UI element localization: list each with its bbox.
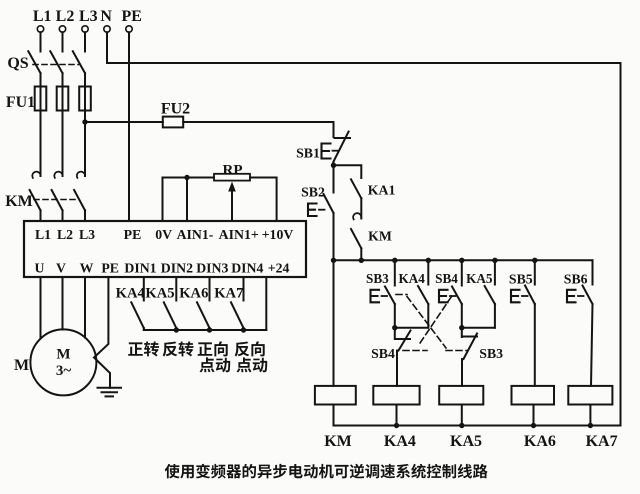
wire KA4 to junction: [395, 327, 429, 329]
svg-text:SB4: SB4: [371, 346, 395, 361]
wire SB6 to KA7 coil: [591, 304, 593, 386]
svg-text:W: W: [80, 261, 94, 276]
node AIN1- junction: [184, 175, 189, 180]
label caption: control circuit of inverter-fed reversible motor: [165, 464, 488, 479]
motor M 3~: [30, 329, 96, 395]
wire N: terminal N right across to right edge and down: [107, 32, 621, 425]
wire KM coil to bottom bus: [333, 405, 335, 426]
svg-text:+24: +24: [268, 261, 290, 276]
node L3 (phase terminal): [82, 26, 88, 32]
svg-text:L1: L1: [33, 8, 52, 25]
svg-text:AIN1+: AIN1+: [219, 227, 259, 242]
svg-text:RP: RP: [223, 163, 243, 179]
node KA6-bus junction: [207, 327, 212, 332]
node L2 (phase terminal): [59, 26, 65, 32]
pushbutton SB4 NC (interlock): [394, 328, 396, 339]
svg-text:SB3: SB3: [479, 346, 503, 361]
label reverse jog line1: [235, 341, 265, 356]
wire KM contact to bus: [360, 248, 362, 260]
contactor KM main contact pole 1: [32, 172, 40, 178]
relay contact KA4 (to DIN1): [143, 277, 145, 301]
svg-text:DIN2: DIN2: [161, 261, 193, 276]
wire KA6 coil to bottom bus: [533, 405, 535, 426]
node KA6-bottom junction: [531, 423, 536, 428]
coil KA6: [512, 386, 555, 405]
wire SB4 to junction: [461, 304, 463, 328]
wire control bus (horizontal): [334, 259, 593, 261]
wire KA1 to KM contact: [360, 198, 362, 218]
svg-text:KA4: KA4: [399, 271, 426, 286]
wire 0V up: [162, 178, 164, 222]
wire W to motor: [84, 277, 86, 338]
wire V to motor: [62, 277, 64, 330]
label forward jog line2: [200, 357, 231, 372]
fuse FU1 pole 3: [84, 87, 86, 111]
wire L2 terminal to QS: [62, 32, 64, 51]
node N (neutral terminal): [104, 26, 110, 32]
svg-text:AIN1-: AIN1-: [177, 227, 214, 242]
node bus junction: [331, 258, 336, 263]
svg-text:FU2: FU2: [161, 101, 190, 118]
relay contact KA1 (seal-in): [351, 179, 361, 198]
node bus junction: [492, 258, 497, 263]
switch QS mechanical link (dashed): [33, 64, 80, 66]
svg-text:KA4: KA4: [384, 433, 416, 450]
pushbutton SB3 NC (interlock): [461, 328, 463, 337]
wire SB3 to junction: [394, 304, 396, 328]
relay contact KA6 (to DIN3): [209, 277, 211, 301]
node FU2 tap junction on L3: [82, 119, 87, 124]
node KA5-branch junction: [459, 325, 464, 330]
svg-text:SB5: SB5: [509, 272, 533, 287]
pushbutton SB6 (NO reverse jog): [592, 260, 594, 284]
wire 0V to RP left: [163, 177, 215, 179]
svg-text:DIN4: DIN4: [231, 261, 263, 276]
wire L3 terminal to QS: [84, 32, 86, 51]
node KA5-bottom junction: [459, 423, 464, 428]
svg-text:PE: PE: [101, 261, 119, 276]
node bus junction: [426, 258, 431, 263]
svg-text:SB6: SB6: [564, 272, 588, 287]
mechanical link SB3 to SB3-NC (dashed): [396, 294, 407, 296]
relay contact KA4 (seal-in): [427, 260, 429, 284]
pushbutton SB2 (NO start): [333, 165, 335, 192]
svg-text:KA5: KA5: [145, 286, 174, 302]
wire AIN1- down: [186, 178, 188, 222]
svg-text:SB4: SB4: [435, 271, 458, 286]
coil KA4: [373, 386, 419, 405]
label forward jog line1: [198, 341, 228, 356]
contactor KM mechanical link (dashed): [34, 199, 79, 201]
label forward (zhengzhuan): [128, 341, 159, 356]
relay contact KA5 (to DIN2): [175, 277, 177, 301]
node bus junction: [459, 258, 464, 263]
switch QS pole 3 blade: [73, 51, 85, 73]
pushbutton SB4 (NO reverse): [461, 260, 463, 285]
wire SB5 to KA6 coil: [534, 304, 536, 386]
wire KA4 coil to bottom bus: [396, 405, 398, 426]
wire L1 terminal to QS: [40, 32, 42, 51]
wire U to motor: [40, 277, 42, 339]
relay contact KA5 (seal-in): [494, 260, 496, 284]
svg-text:N: N: [100, 8, 112, 25]
switch QS pole 1 blade: [28, 51, 40, 73]
svg-text:FU1: FU1: [6, 94, 35, 111]
svg-text:KA5: KA5: [450, 433, 482, 450]
fuse FU2: [163, 117, 183, 128]
svg-text:KM: KM: [324, 433, 352, 450]
coil KA7: [568, 386, 612, 405]
node bus junction: [532, 258, 537, 263]
node KA7-bottom junction: [588, 423, 593, 428]
svg-text:KM: KM: [5, 193, 33, 210]
node SB1 bottom junction: [331, 163, 336, 168]
node KA4-branch junction: [392, 325, 397, 330]
svg-text:KA5: KA5: [466, 271, 493, 286]
node bus junction: [392, 258, 397, 263]
svg-text:KA6: KA6: [524, 433, 556, 450]
fuse FU1 pole 1: [40, 87, 42, 111]
wire SB4NC to KA4 coil: [396, 351, 398, 386]
pushbutton SB1 (NC stop): [333, 122, 335, 137]
wire +24 common bus: [144, 329, 266, 331]
svg-text:+10V: +10V: [262, 227, 294, 242]
coil KA5: [439, 386, 483, 405]
node L1 (phase terminal): [37, 26, 43, 32]
pushbutton SB3 (NO forward): [394, 260, 396, 285]
label reverse jog line2: [237, 357, 268, 372]
wire PE to motor frame and earth: [94, 277, 110, 388]
wire FU1 to KM pole 1: [40, 111, 42, 177]
potentiometer RP: [214, 174, 250, 181]
wire junction to KA1 branch: [334, 165, 362, 178]
wire KA5 to junction: [462, 327, 495, 329]
svg-text:QS: QS: [7, 55, 28, 72]
frequency inverter U0 (terminal box): [24, 221, 306, 277]
contactor KM main contact pole 3: [77, 172, 85, 178]
svg-text:DIN3: DIN3: [196, 261, 228, 276]
contactor KM main contact pole 2: [54, 172, 62, 178]
wire bus to KM coil: [333, 260, 335, 386]
svg-text:SB2: SB2: [301, 185, 325, 200]
wire PE: terminal PE down to inverter box: [128, 32, 130, 221]
wire L3 tap to FU2 to SB1 column: [85, 121, 163, 123]
svg-text:KA6: KA6: [179, 286, 208, 302]
svg-text:L3: L3: [79, 227, 95, 242]
svg-text:M: M: [56, 347, 70, 363]
svg-text:DIN1: DIN1: [124, 261, 156, 276]
pushbutton SB5 (NO forward jog): [534, 260, 536, 284]
svg-text:KA7: KA7: [586, 433, 618, 450]
relay contact KA7 (to DIN4): [243, 277, 245, 301]
wire KA5 coil to bottom bus: [461, 405, 463, 426]
svg-text:KM: KM: [368, 229, 392, 244]
mechanical link SB4 to SB4-NC (dashed): [418, 297, 452, 347]
node KA7-bus junction: [241, 327, 246, 332]
node PE (earth terminal): [126, 26, 132, 32]
svg-text:0V: 0V: [155, 227, 172, 242]
node KA4-bottom junction: [394, 423, 399, 428]
node KA5-bus junction: [174, 327, 179, 332]
svg-text:KA7: KA7: [214, 286, 243, 302]
wire KA7 coil to bottom bus: [589, 405, 591, 426]
label reverse (fanzhuan): [163, 341, 194, 356]
svg-text:SB1: SB1: [296, 146, 320, 161]
wire SB3NC to KA5 coil: [461, 359, 463, 386]
svg-text:L3: L3: [79, 8, 98, 25]
wire RP right to +10V down: [250, 178, 277, 222]
contactor contact KM (control): [353, 213, 361, 219]
svg-text:U: U: [35, 261, 45, 276]
svg-text:M: M: [14, 357, 29, 374]
wire FU1 to KM pole 2: [62, 111, 64, 177]
svg-text:L2: L2: [56, 8, 75, 25]
node bus junction: [359, 258, 364, 263]
wire QS to FU1 pole 1: [40, 73, 42, 87]
svg-text:V: V: [56, 261, 66, 276]
svg-text:SB3: SB3: [366, 271, 389, 286]
svg-text:PE: PE: [121, 8, 141, 25]
wire RP wiper (arrow) to AIN1+: [231, 191, 233, 221]
wire +24 riser: [265, 277, 267, 330]
ground (earth symbol): [98, 387, 122, 389]
fuse FU1 pole 2: [62, 87, 64, 111]
wire QS to FU1 pole 2: [62, 73, 64, 87]
svg-text:PE: PE: [124, 227, 142, 242]
wire SB1 to junction: [333, 162, 335, 165]
svg-text:KA1: KA1: [368, 183, 396, 198]
wire FU1 to KM pole 3: [84, 111, 86, 177]
coil KM: [315, 386, 356, 405]
svg-text:L1: L1: [35, 227, 51, 242]
wire QS to FU1 pole 3: [84, 73, 86, 87]
wire bottom return bus: [334, 425, 621, 427]
switch QS pole 2 blade: [50, 51, 62, 73]
svg-text:L2: L2: [57, 227, 73, 242]
svg-text:KA4: KA4: [116, 286, 146, 302]
wire SB2 to bus: [333, 213, 335, 260]
svg-text:3~: 3~: [56, 363, 72, 379]
